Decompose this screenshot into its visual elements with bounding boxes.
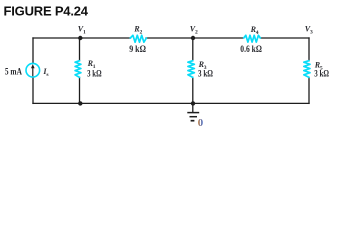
svg-text:Is: Is xyxy=(42,67,49,78)
wire R3 branch upper xyxy=(192,38,194,61)
svg-text:0.6 kΩ: 0.6 kΩ xyxy=(240,45,262,55)
svg-text:3 kΩ: 3 kΩ xyxy=(314,70,329,80)
node V1 junction dot xyxy=(78,36,82,40)
svg-text:9 kΩ: 9 kΩ xyxy=(129,45,146,55)
svg-text:FIGURE P4.24: FIGURE P4.24 xyxy=(4,3,89,18)
wire top rail middle segment xyxy=(146,37,244,39)
resistor R1 zigzag xyxy=(75,61,81,78)
wire ground stub xyxy=(192,103,194,112)
svg-text:R2: R2 xyxy=(133,24,142,35)
wire bottom rail xyxy=(33,102,309,104)
resistor R4 zigzag xyxy=(244,35,261,42)
svg-text:5 mA: 5 mA xyxy=(5,67,22,77)
svg-text:3 kΩ: 3 kΩ xyxy=(87,70,102,80)
ground xyxy=(187,113,199,121)
svg-text:0: 0 xyxy=(198,117,203,129)
resistor R5 zigzag xyxy=(304,61,310,78)
svg-text:3 kΩ: 3 kΩ xyxy=(198,70,213,80)
wire top rail left segment xyxy=(33,37,131,39)
svg-text:V3: V3 xyxy=(305,24,313,35)
wire left branch lower xyxy=(32,78,34,104)
resistor R3 zigzag xyxy=(188,61,195,78)
svg-text:V2: V2 xyxy=(190,24,198,35)
svg-text:R4: R4 xyxy=(250,25,259,36)
node V2 junction dot xyxy=(191,36,195,40)
wire right branch lower xyxy=(308,77,310,103)
wire left branch upper xyxy=(32,38,34,63)
wire R1 branch upper xyxy=(79,38,81,61)
resistor R2 zigzag xyxy=(130,35,146,42)
svg-text:V1: V1 xyxy=(78,24,86,35)
wire R3 branch lower xyxy=(192,77,194,103)
current source Is circle xyxy=(26,63,40,77)
junction dot bottom ground xyxy=(191,101,195,105)
svg-text:R1: R1 xyxy=(87,59,96,70)
junction dot bottom R1 xyxy=(78,101,82,105)
wire R1 branch lower xyxy=(79,77,81,103)
wire top rail right segment xyxy=(260,37,309,39)
current source arrow xyxy=(31,64,35,76)
wire right branch upper xyxy=(308,38,310,61)
